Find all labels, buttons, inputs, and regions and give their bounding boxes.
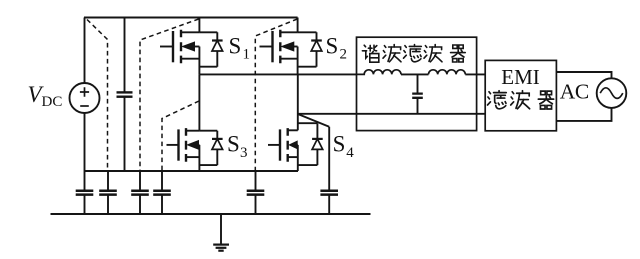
label S4: [333, 132, 355, 162]
label EMI filter (lv bo qi): [488, 91, 554, 109]
dashed path from S1 drain: [140, 19, 199, 171]
dashed path from S3 drain: [162, 101, 199, 171]
wire: phase node A rail: [199, 73, 356, 75]
svg-text:S: S: [227, 132, 240, 157]
svg-text:DC: DC: [42, 94, 63, 110]
wire: bridge bottom rail: [84, 170, 298, 172]
wire inductor to box edge: [465, 73, 485, 75]
label VDC: [28, 82, 63, 110]
source V_DC: [70, 18, 100, 191]
inductor L1: [357, 70, 402, 75]
svg-text:S: S: [333, 132, 346, 157]
wire between inductors: [401, 73, 429, 75]
body diode of S2: [298, 32, 322, 66]
capacitor Cp5: [247, 171, 265, 214]
wire: phase node B line: [298, 113, 485, 115]
wire EMI to AC top: [556, 72, 611, 78]
svg-text:3: 3: [240, 145, 248, 161]
node B parasitic branch: [298, 114, 329, 190]
label S3: [227, 132, 248, 162]
label harmonic filter (xie bo lv bo qi): [362, 45, 465, 63]
transistor S4: [268, 74, 298, 171]
inductor L2: [428, 70, 465, 75]
capacitor Cp6: [320, 191, 338, 214]
dashed path from S2 drain: [255, 19, 297, 171]
source AC: [597, 78, 627, 108]
capacitor Cp3: [131, 171, 149, 214]
svg-text:EMI: EMI: [501, 65, 540, 89]
capacitor C filter: [412, 74, 423, 113]
capacitor DC-link: [117, 18, 133, 172]
transistor S2: [260, 18, 298, 75]
svg-text:S: S: [229, 34, 242, 59]
capacitor Cp1: [76, 191, 94, 214]
capacitor Cp2: [99, 171, 117, 214]
svg-text:AC: AC: [560, 80, 589, 104]
wire: top DC+ rail: [84, 17, 298, 19]
label S1: [229, 34, 251, 63]
dashed path from DC+ corner: [87, 20, 108, 172]
body diode of S4: [298, 123, 323, 165]
capacitor Cp4: [153, 171, 171, 214]
transistor S1: [160, 18, 199, 75]
EMI filter box: [485, 60, 556, 130]
harmonic filter box: [357, 37, 477, 130]
ground: [213, 214, 229, 251]
svg-text:2: 2: [340, 47, 348, 63]
svg-text:1: 1: [243, 47, 251, 63]
wire EMI to AC bottom: [556, 108, 611, 121]
svg-text:S: S: [326, 34, 339, 59]
dashed parasitic paths: [87, 19, 297, 171]
transistor S3: [167, 74, 200, 171]
wire: ground rail: [51, 213, 371, 215]
label S2: [326, 34, 348, 63]
body diode of S1: [199, 32, 222, 66]
svg-text:4: 4: [346, 145, 354, 161]
body diode of S3: [199, 131, 222, 165]
